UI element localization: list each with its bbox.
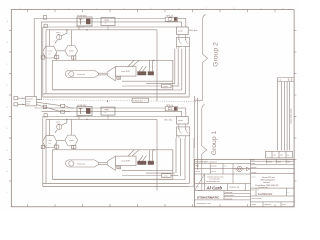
wire dashed control line (37, 100, 201, 102)
svg-text:xxxx SOP: xxxx SOP (121, 160, 130, 162)
wire G1 loop 5 (193, 138, 195, 186)
wire G2 motor leads diagonal (128, 60, 134, 66)
motor G1 drive unit (115, 156, 136, 166)
svg-text:xxxxx: xxxxx (69, 51, 74, 53)
svg-text:xxxx SOP: xxxx SOP (121, 71, 130, 73)
wire diagonal to G1 feed A with tag (37, 102, 61, 105)
connector external input 2 (14, 103, 18, 106)
left border zone ticks (9, 30, 12, 32)
fitting G1 drain plug (117, 166, 121, 169)
wire G2 enclosure left (42, 27, 44, 97)
wire G2 P1-P2 link (57, 50, 65, 52)
wire diagonal to G1 feed B with tag (37, 105, 61, 112)
wire G1 motor return 1 (122, 170, 173, 172)
solenoid G2 valve contacts box (176, 37, 189, 46)
svg-text:FUSE BLK: FUSE BLK (78, 16, 88, 18)
svg-text:xxxxxxxxx: xxxxxxxxx (225, 192, 233, 194)
connector G2 interface header J1 (165, 17, 177, 21)
svg-text:x xxxx: x xxxx (267, 161, 272, 163)
svg-text:xxxxx xxx: xxxxx xxx (77, 163, 85, 165)
wire vertical bus right 2 (197, 98, 199, 170)
svg-text:xxxxx: xxxxx (178, 120, 183, 122)
svg-text:x: x (266, 155, 267, 157)
fuse block G1 F1 (77, 107, 92, 116)
wire G2 loop 4 (185, 49, 187, 94)
svg-text:STOKERMATIC: STOKERMATIC (197, 196, 220, 200)
wire G1 F1 drop (78, 116, 80, 120)
solenoid G1 valve contacts box (176, 127, 189, 136)
wire G1 top feed A (34, 107, 165, 109)
top border zone ticks (27, 10, 29, 13)
svg-text:PROPRIETARY xxxxxxxxx: PROPRIETARY xxxxxxxxx (196, 161, 217, 164)
svg-text:xxx xxxxxxxxx xxxx: xxx xxxxxxxxx xxxx (206, 181, 220, 183)
svg-text:Group 1: Group 1 (211, 131, 218, 156)
connector G2 terminal block 1 (138, 72, 146, 75)
pump hexagon G1 P2 (65, 135, 78, 145)
brace Group 1 (198, 105, 207, 191)
wire G2 terminal2 drops (149, 60, 151, 71)
table title block grid (195, 159, 295, 207)
shaft G1 actuator rod (98, 162, 107, 164)
svg-text:6: 6 (179, 8, 180, 10)
wire G1 motor leads diagonal (128, 150, 134, 156)
svg-text:xx: xx (258, 190, 260, 192)
svg-text:xxxx: xxxx (196, 186, 199, 188)
wire G2 enclosure top (43, 26, 177, 28)
svg-text:xxxxx: xxxxx (178, 31, 183, 33)
svg-text:xxxxxxxxxx xx xxxx: xxxxxxxxxx xx xxxx (197, 203, 212, 205)
svg-text:x Gxxx xxxx: x Gxxx xxxx (133, 100, 143, 102)
brace Group 2 (194, 15, 207, 101)
svg-text:xxxxxxxx: xxxxxxxx (264, 204, 271, 206)
wire G1 outer loop bottom (43, 186, 189, 188)
wire vertical bus right 1 (193, 96, 195, 148)
motor G2 drive unit (115, 67, 136, 77)
svg-text:Control: Control (263, 181, 270, 184)
table parts list header (266, 151, 293, 158)
svg-text:xxxx: xxxx (287, 161, 290, 163)
wire G2 inner loop left (45, 30, 47, 94)
svg-text:Gxxxx TD lino: Gxxxx TD lino (262, 177, 276, 179)
node dashed line junction (107, 101, 108, 102)
svg-text:SPX-16: SPX-16 (166, 16, 173, 18)
svg-text:xxxx xxxxxx: xxxx xxxxxx (76, 116, 85, 118)
svg-text:x: x (288, 192, 289, 194)
tank G2 enclosure (53, 60, 173, 89)
svg-text:0: 0 (283, 8, 284, 10)
wire G2 enclosure bottom (43, 93, 186, 95)
coupling G2 bell housing (107, 67, 115, 81)
wire G1 long drop (156, 119, 158, 190)
svg-text:xxx xxxx xxxx: xxx xxxx xxxx (258, 187, 268, 189)
svg-text:xxxxxxxx xxxxx xxx xxx: xxxxxxxx xxxxx xxx xxx (207, 176, 224, 178)
wire G2 motor return 1 (122, 80, 173, 82)
svg-text:xxxxx xxxx xxxxx: xxxxx xxxx xxxxx (291, 108, 293, 123)
connector G1 terminal block 2 (148, 161, 154, 164)
svg-text:1: 1 (48, 8, 49, 10)
wire G1 component bus (46, 118, 157, 120)
svg-text:5: 5 (151, 8, 152, 10)
tank G1 enclosure (53, 150, 173, 179)
svg-text:FUSE BLK: FUSE BLK (78, 105, 88, 107)
wire G1 motor return 2 (146, 172, 175, 174)
wire G1 tag line (122, 175, 162, 177)
svg-text:xxxxxx: xxxxxx (252, 172, 257, 174)
fitting G2 drain plug (117, 76, 121, 79)
svg-text:J: J (7, 192, 8, 194)
wire riser to G2 feed A (33, 19, 35, 97)
svg-text:x xxx: x xxx (48, 140, 52, 142)
node G2 enclosure left tap (41, 56, 44, 59)
node G1 junction square on feed A (43, 105, 46, 108)
table parts list column (276, 82, 278, 151)
svg-text:xxx: xxx (224, 166, 227, 168)
svg-text:2015.11.05: 2015.11.05 (229, 187, 240, 189)
wire G2 top feed A (34, 18, 165, 20)
pump hexagon G2 P2 (65, 46, 78, 56)
svg-text:0: 0 (20, 8, 21, 10)
fitting G1 tank inlet 2 (73, 146, 75, 150)
wire G2 F1 drop (78, 26, 80, 30)
wire G2 outer loop bottom (43, 96, 189, 98)
node G1 junction square at enclosure corner (44, 114, 47, 117)
svg-text:x xx xxxxx xxxx: x xx xxxxx xxxx (209, 179, 220, 181)
label G2 wire tag box (162, 84, 172, 88)
node G1 enclosure left tap (41, 145, 44, 148)
label control line tag box (132, 98, 149, 102)
svg-text:x xxxx: x xxxx (163, 176, 168, 178)
svg-text:F3-25252-002: F3-25252-002 (258, 194, 273, 196)
svg-text:7: 7 (206, 8, 207, 10)
relay G2 wire box (177, 27, 189, 35)
svg-text:x xx: x xx (278, 80, 281, 82)
wire G2 loop 1 (174, 49, 176, 84)
junction box splitter (26, 97, 37, 106)
wire G1 enclosure bottom (43, 182, 186, 184)
svg-text:xx: xx (105, 23, 107, 25)
label G1 wire tag box (162, 174, 172, 178)
cylinder G2 actuator body (65, 70, 98, 77)
svg-text:Al Carb: Al Carb (206, 185, 223, 190)
wire G2 top feed B (42, 21, 177, 23)
wire G1 enclosure left (42, 117, 44, 187)
wire G1 loop 2 (180, 138, 182, 176)
right border zone ticks (294, 30, 296, 32)
svg-text:x xxxx: x xxxx (163, 86, 168, 88)
wire G1 top feed B (42, 110, 177, 112)
relay G1 wire box (177, 117, 189, 125)
wire G2 loop 2 (177, 49, 179, 87)
svg-text:SPX-16: SPX-16 (166, 105, 173, 107)
wire G2 component bus (46, 29, 157, 31)
wire input 2 arrow (18, 103, 26, 105)
svg-text:xxx: xxx (273, 155, 276, 157)
wire G2 J1 to relay (178, 18, 186, 20)
wire G2 loop 3 (181, 49, 183, 90)
svg-text:9: 9 (261, 8, 262, 10)
wire riser to G2 feed B (41, 22, 43, 99)
node G2 tank top junction (153, 60, 154, 61)
svg-text:xxx xx: xxx xx (196, 171, 201, 173)
svg-text:2: 2 (69, 8, 70, 10)
connector G2 terminal block 2 (148, 72, 154, 75)
wire input 1 arrow (18, 97, 26, 99)
svg-text:xxxx xxxxxx: xxxx xxxxxx (76, 26, 85, 28)
svg-text:xxxxx: xxxxx (69, 140, 74, 142)
sheet border frame (11, 10, 294, 207)
node G2 bus junction 1 (66, 29, 67, 30)
svg-text:xxxx: xxxx (252, 190, 255, 192)
svg-text:xxxxxx: xxxxxx (252, 167, 257, 169)
svg-text:8: 8 (234, 8, 235, 10)
fitting G2 tank inlet 1 (55, 54, 57, 61)
svg-text:4: 4 (124, 8, 125, 10)
wire G1 enclosure top (43, 116, 177, 118)
fitting G1 tank inlet 1 (55, 143, 57, 150)
bottom border zone ticks (27, 204, 29, 207)
coupling G1 bell housing (107, 156, 115, 170)
svg-text:3: 3 (96, 8, 97, 10)
wire G1 P1-P2 link (57, 139, 65, 141)
fitting G2 tank inlet 2 (73, 56, 75, 60)
wire G1 loop 4 (189, 138, 191, 183)
svg-text:xxxxx: xxxxx (252, 163, 256, 165)
shaft G2 actuator rod (98, 72, 107, 74)
svg-text:xxxx: xxxx (252, 160, 255, 162)
svg-text:Wiring Diagram: Wiring Diagram (261, 179, 276, 182)
svg-text:xxxxx: xxxxx (252, 204, 256, 206)
svg-text:Wire Box: Wire Box (189, 30, 197, 32)
svg-text:xxx: xxx (48, 53, 51, 55)
wire G2 terminal leads diagonal (139, 66, 143, 72)
wire G1 J1 to relay (178, 107, 186, 109)
svg-text:xxxxxxxxx: xxxxxxxxx (225, 198, 233, 200)
node G2 bus junction 2 (86, 29, 87, 30)
connector external input 1 (14, 97, 18, 100)
wire G2 long drop (156, 30, 158, 101)
wire G2 motor return 2 (146, 83, 175, 85)
svg-text:xxxxxxxxxxx: xxxxxxxxxxx (225, 195, 234, 197)
connector G1 interface header J1 (165, 107, 177, 111)
wire G2 tag line (122, 85, 162, 87)
svg-text:xxxx xxxxxxx: xxxx xxxxxxx (252, 198, 262, 200)
svg-text:xxx xx: xxx xx (211, 171, 216, 173)
wire G1 inner loop left (45, 119, 47, 183)
svg-text:Group 2: Group 2 (212, 42, 219, 67)
svg-text:xxxx: xxxx (26, 103, 30, 105)
wire G1 terminal2 drops (149, 150, 151, 161)
svg-text:xxx: xxx (48, 143, 51, 145)
node G2 junction square on feed A (43, 16, 46, 19)
svg-text:xxxxx: xxxxx (277, 161, 281, 163)
relay module G1 K1 (101, 107, 115, 115)
wire G1 loop 1 (175, 138, 177, 173)
svg-text:xx xxxx: xx xxxx (211, 166, 216, 168)
pump hexagon G1 P1 (43, 136, 57, 148)
pump hexagon G2 P1 (43, 46, 57, 58)
wire G2 loop 5 (188, 49, 190, 97)
svg-text:xxx: xxx (280, 155, 283, 157)
svg-text:Wire Box: Wire Box (164, 119, 172, 121)
svg-text:x xx x: x xx x (282, 204, 286, 206)
cylinder G1 actuator body (65, 160, 98, 167)
fuse block G2 F1 (77, 17, 92, 26)
svg-text:xxxxx: xxxxx (252, 177, 256, 179)
node G2 junction square at enclosure corner (44, 24, 47, 27)
wire G1 loop 3 (184, 138, 186, 179)
relay module G2 K1 (101, 18, 115, 26)
connector G1 terminal block 1 (138, 161, 146, 164)
node G1 bus junction 2 (86, 119, 87, 120)
svg-text:xx: xx (105, 112, 107, 114)
svg-text:x xxx: x xxx (48, 51, 52, 53)
wire G1 terminal leads diagonal (139, 156, 143, 162)
svg-text:xx: xx (287, 155, 289, 157)
node G1 tank top junction (153, 149, 154, 150)
node G1 bus junction 1 (66, 119, 67, 120)
svg-text:xxxxx xxx: xxxxx xxx (77, 74, 85, 76)
